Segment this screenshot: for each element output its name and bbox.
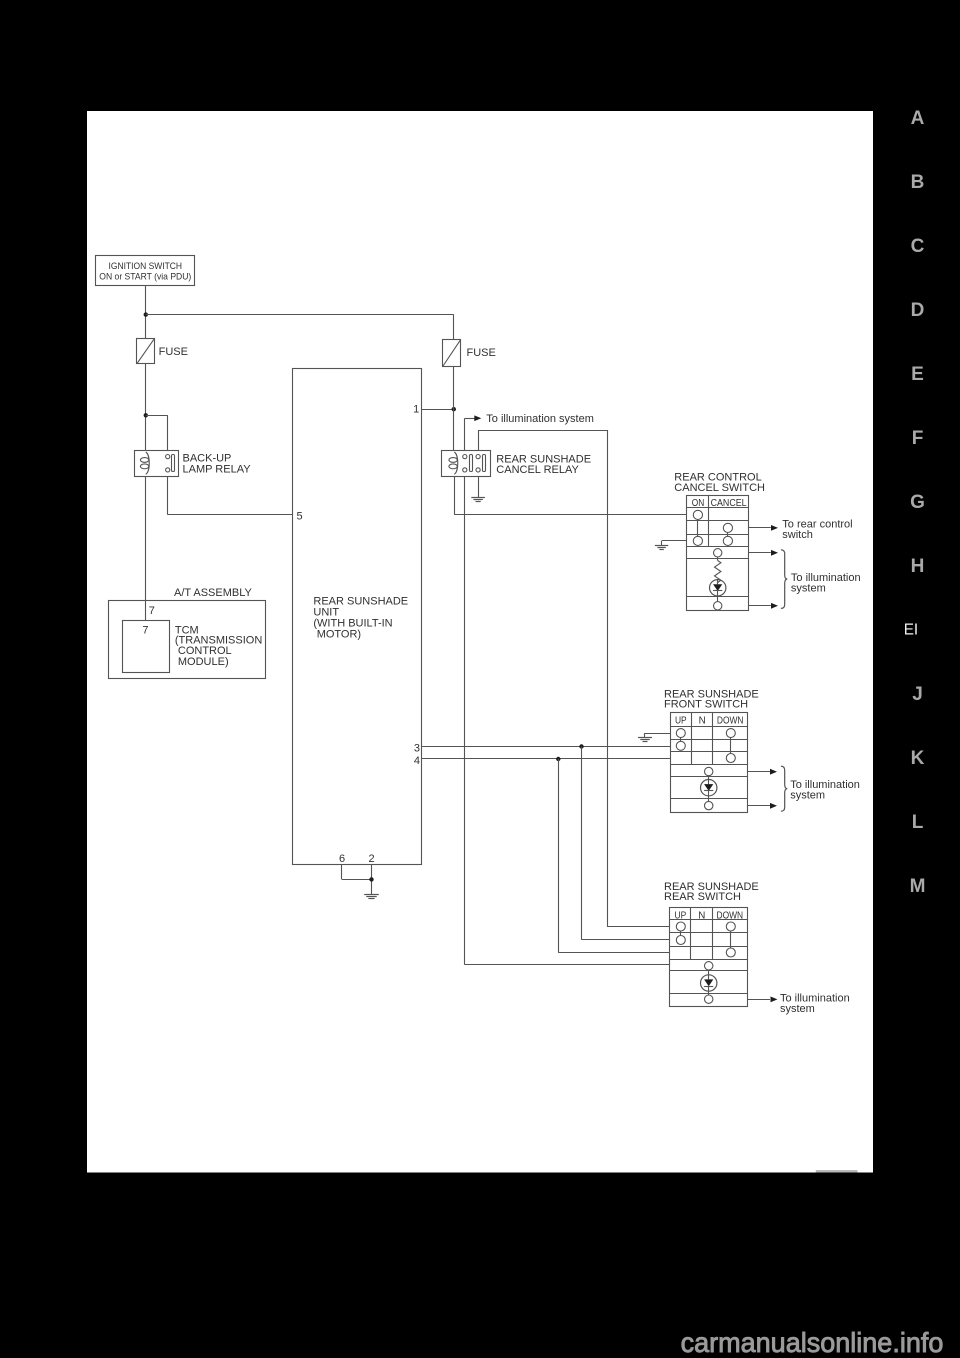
svg-text:1: 1 [413,403,419,415]
svg-text:CANCEL: CANCEL [711,498,747,509]
svg-text:CANCEL SWITCH: CANCEL SWITCH [674,482,765,494]
svg-text:EI: EI [904,621,918,638]
svg-text:FUSE: FUSE [159,346,188,358]
svg-text:UP: UP [675,910,687,921]
svg-text:4: 4 [414,755,420,767]
svg-text:K: K [911,748,925,769]
svg-text:To illumination system: To illumination system [486,413,594,425]
svg-text:system: system [780,1003,815,1015]
svg-text:A: A [911,108,925,129]
svg-text:5: 5 [297,510,303,522]
svg-text:6: 6 [339,853,345,865]
svg-text:FUSE: FUSE [467,347,496,359]
svg-text:LAMP RELAY: LAMP RELAY [183,463,252,475]
svg-text:CANCEL RELAY: CANCEL RELAY [496,464,579,476]
svg-text:UP: UP [675,716,687,727]
svg-text:system: system [790,790,825,802]
svg-text:MODULE): MODULE) [178,656,229,668]
svg-text:L: L [912,812,924,833]
svg-text:M: M [910,876,926,897]
svg-text:DOWN: DOWN [717,910,744,921]
svg-text:D: D [911,300,925,321]
svg-text:REAR SWITCH: REAR SWITCH [664,891,741,903]
svg-text:C: C [911,236,925,257]
svg-text:3: 3 [414,742,420,754]
svg-text:F: F [912,428,924,449]
svg-text:H: H [911,556,925,577]
svg-text:B: B [911,172,925,193]
svg-text:system: system [791,583,826,595]
svg-text:2: 2 [368,853,374,865]
svg-text:DOWN: DOWN [717,716,744,727]
svg-text:MOTOR): MOTOR) [317,628,361,640]
svg-text:FRONT SWITCH: FRONT SWITCH [664,699,748,711]
svg-text:switch: switch [782,529,813,541]
svg-text:N: N [699,716,706,727]
svg-text:J: J [912,684,923,705]
svg-text:ON: ON [692,498,705,509]
svg-text:carmanualsonline.info: carmanualsonline.info [681,1327,944,1358]
svg-text:7: 7 [142,624,148,636]
svg-text:ON or START (via PDU): ON or START (via PDU) [99,271,191,282]
svg-text:N: N [698,910,705,921]
svg-text:E: E [911,364,924,385]
svg-text:7: 7 [149,605,155,617]
svg-text:G: G [910,492,925,513]
svg-text:A/T ASSEMBLY: A/T ASSEMBLY [174,587,253,599]
